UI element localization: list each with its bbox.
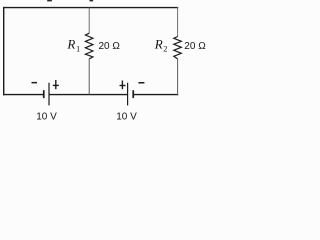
wire bottom-middle segment bbox=[49, 94, 128, 96]
resistor R2 bbox=[174, 37, 182, 59]
battery B1 minus sign bbox=[32, 82, 38, 84]
wire R2 branch bottom (right edge) bbox=[177, 59, 179, 96]
svg-text:1: 1 bbox=[76, 43, 80, 53]
wire bottom-left segment bbox=[3, 94, 44, 96]
wire R2 branch top (right edge) bbox=[177, 7, 179, 37]
battery B1 plus sign bbox=[53, 80, 59, 89]
svg-text:2: 2 bbox=[163, 44, 167, 54]
battery B2 minus sign bbox=[138, 82, 144, 84]
svg-text:R: R bbox=[66, 37, 75, 52]
svg-text:20 Ω: 20 Ω bbox=[99, 41, 121, 52]
battery B2 positive (long) plate bbox=[127, 83, 128, 106]
battery B2 plus sign bbox=[120, 81, 126, 90]
wire left bbox=[3, 7, 5, 95]
svg-text:10 V: 10 V bbox=[36, 112, 57, 123]
wire R1 branch top bbox=[88, 8, 90, 34]
wire bottom-right segment bbox=[133, 94, 178, 96]
battery B2 negative (short) plate bbox=[132, 90, 134, 98]
battery B1 negative (short) plate bbox=[43, 90, 45, 98]
stray mark bbox=[47, 0, 52, 1]
stray mark bbox=[90, 0, 94, 1]
battery B1 positive (long) plate bbox=[48, 83, 49, 106]
svg-text:R: R bbox=[154, 37, 163, 52]
wire top bbox=[3, 7, 178, 9]
wire R1 branch bottom bbox=[88, 59, 90, 95]
svg-text:10 V: 10 V bbox=[116, 112, 137, 123]
svg-text:20 Ω: 20 Ω bbox=[184, 41, 206, 52]
resistor R1 bbox=[85, 33, 93, 59]
